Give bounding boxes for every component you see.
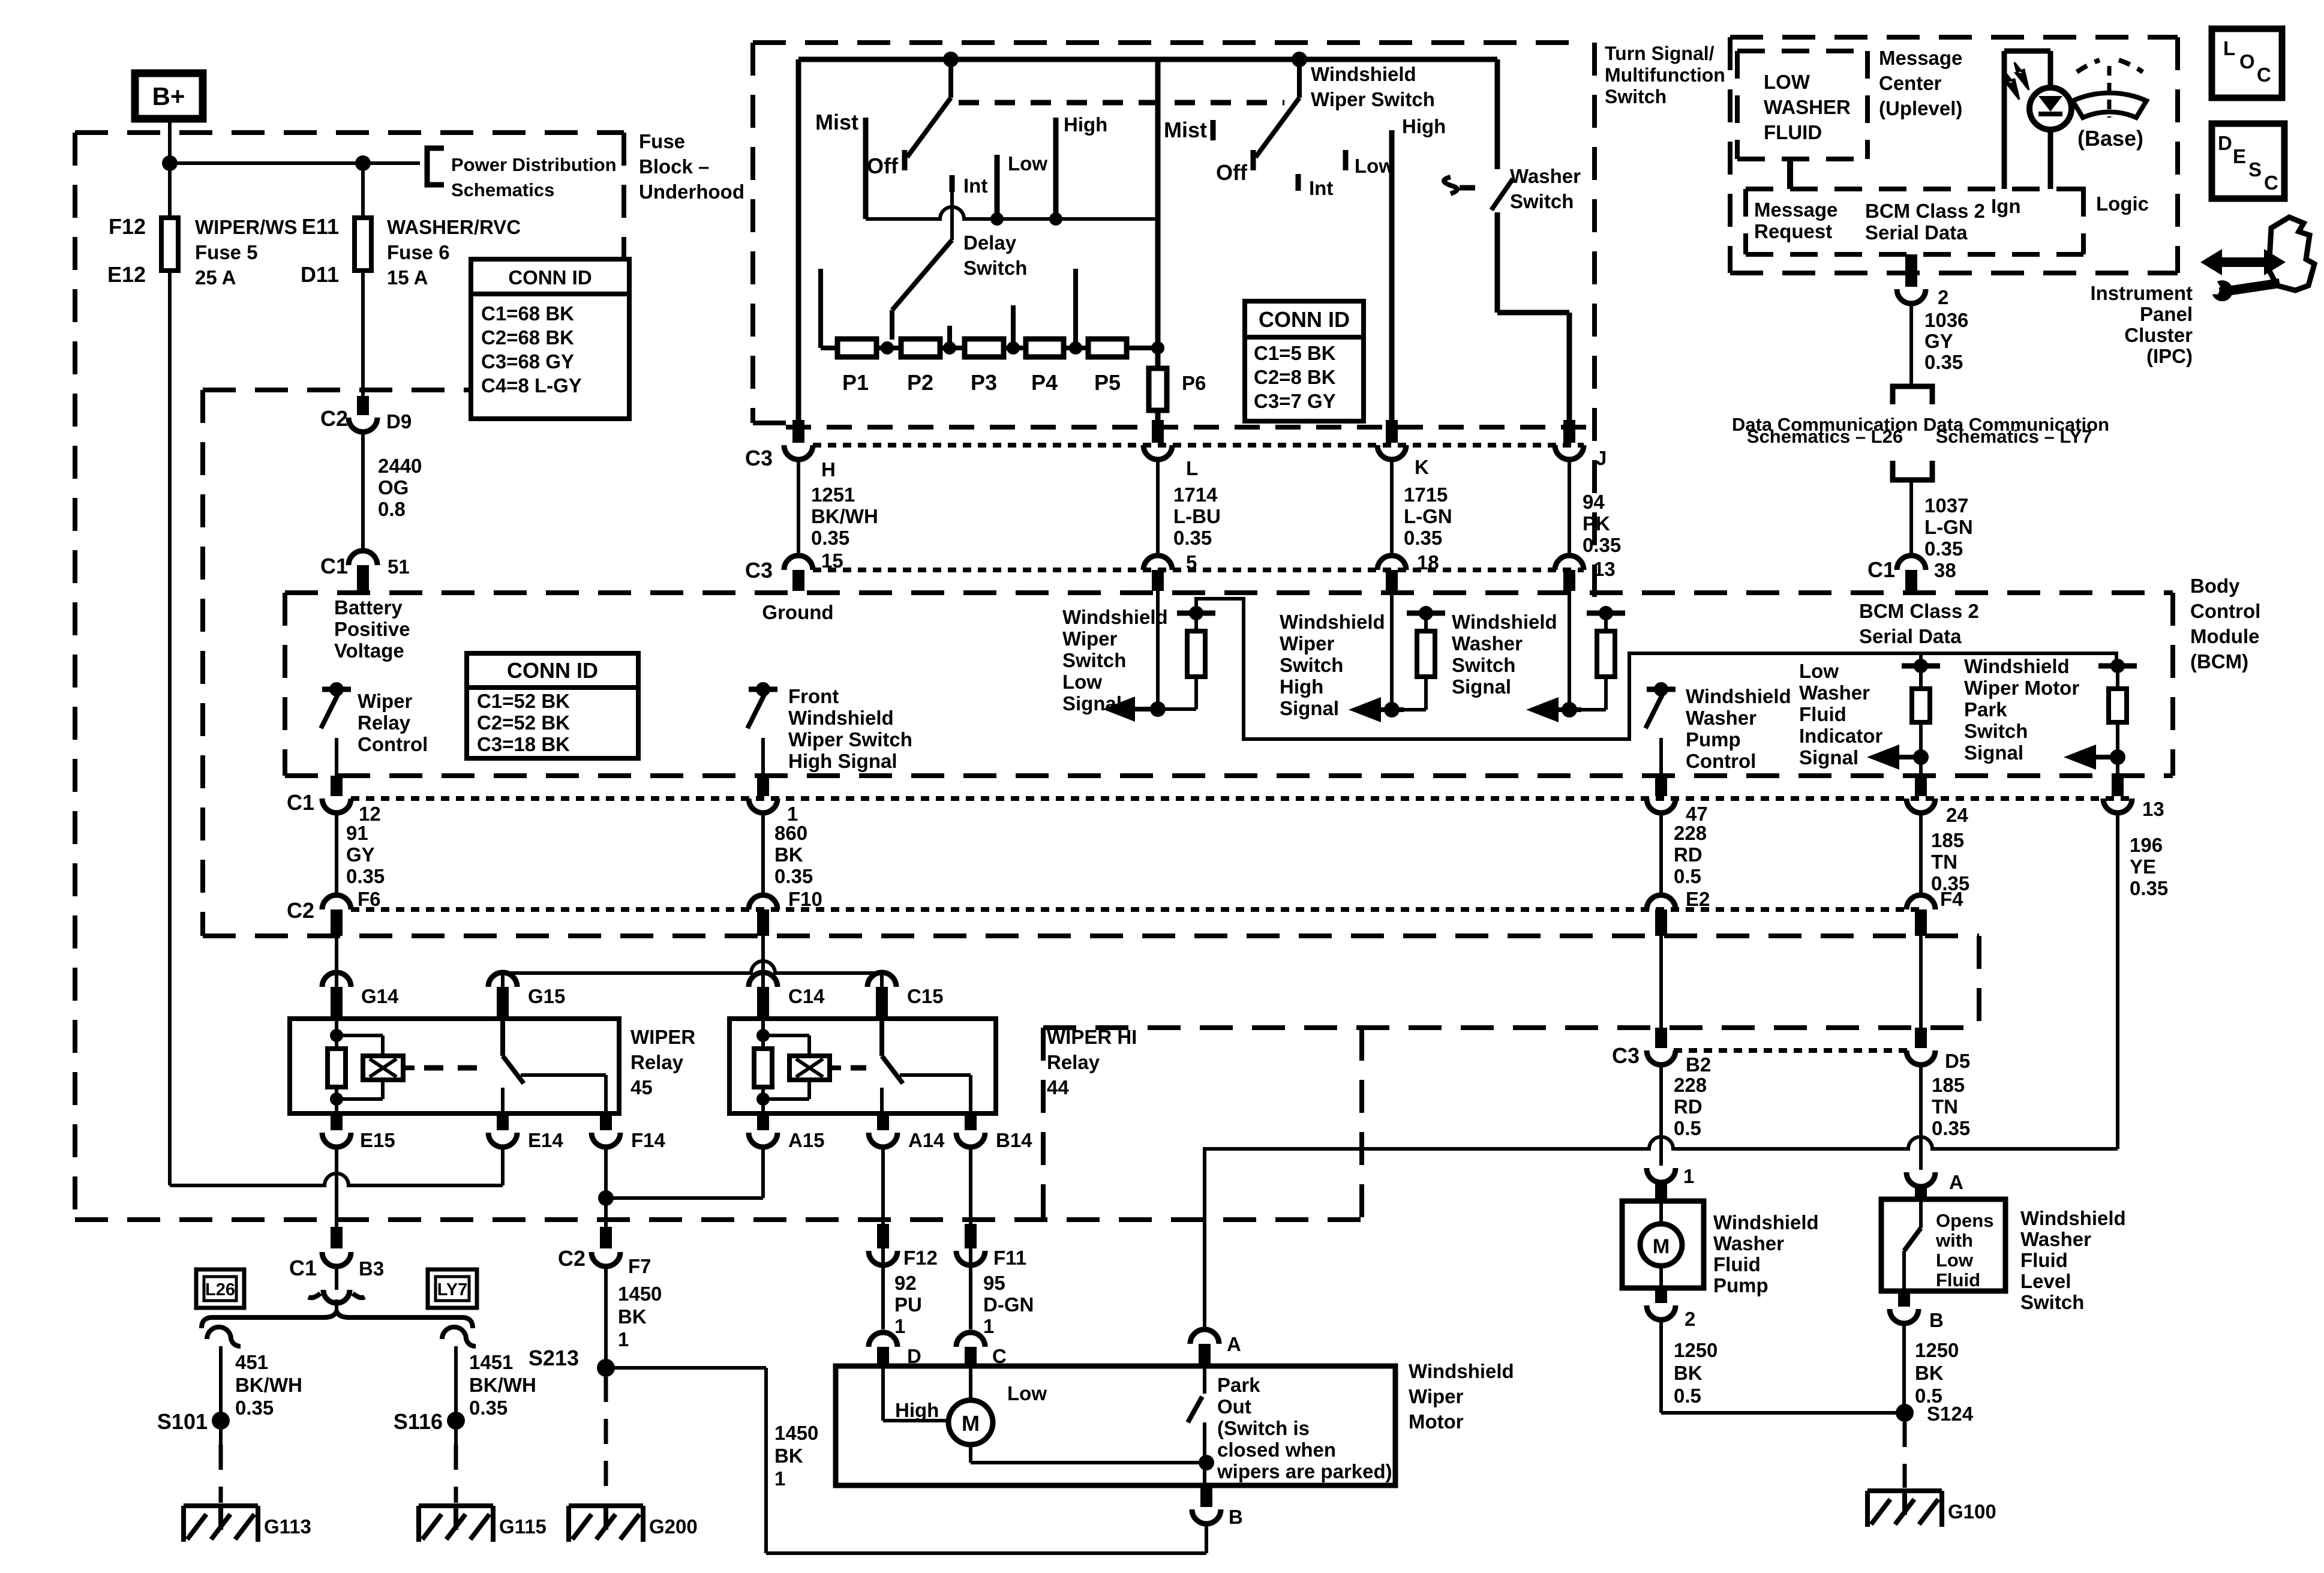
section1 Int contact [950, 175, 955, 192]
svg-text:S101: S101 [157, 1409, 208, 1434]
svg-text:BK/WH: BK/WH [235, 1374, 302, 1396]
svg-text:High: High [1402, 115, 1446, 137]
svg-text:GY: GY [1924, 330, 1953, 352]
svg-text:D5: D5 [1945, 1050, 1970, 1072]
connector hook L26 leg [207, 1327, 241, 1346]
svg-text:0.35: 0.35 [1583, 534, 1621, 556]
switch supply bus [798, 57, 1497, 62]
connector K lower (18) [1377, 556, 1406, 570]
connector G15 [488, 972, 517, 987]
svg-text:Switch: Switch [1964, 720, 2028, 742]
svg-text:C2: C2 [287, 898, 314, 923]
svg-text:Switch: Switch [1280, 654, 1343, 676]
wire G15-C15 link [503, 961, 882, 973]
svg-text:Motor: Motor [1409, 1410, 1464, 1433]
svg-text:Opens: Opens [1936, 1210, 1993, 1231]
svg-text:Washer: Washer [1713, 1232, 1784, 1254]
svg-text:C3: C3 [745, 446, 773, 470]
svg-text:1: 1 [1683, 1165, 1694, 1187]
arrow wiper switch high signal [1349, 697, 1381, 722]
svg-text:1451: 1451 [469, 1351, 513, 1373]
connector D5 [1915, 1028, 1927, 1048]
svg-text:BK: BK [618, 1305, 647, 1328]
wire F6 to G14 [335, 936, 338, 987]
connector 24 [1915, 776, 1927, 796]
svg-text:0.5: 0.5 [1674, 1117, 1701, 1139]
vehicle data-link icon [2269, 217, 2314, 290]
svg-text:1450: 1450 [618, 1283, 662, 1305]
svg-text:High: High [895, 1399, 939, 1421]
svg-text:Cluster: Cluster [2124, 324, 2193, 346]
svg-text:TN: TN [1931, 851, 1957, 873]
svg-text:Windshield: Windshield [1409, 1360, 1514, 1382]
svg-text:Relay: Relay [630, 1051, 684, 1073]
wire J input inside BCM [1568, 591, 1571, 710]
svg-text:Washer: Washer [2020, 1228, 2091, 1250]
svg-text:1: 1 [774, 1467, 785, 1490]
row B upper dotted line [351, 796, 2132, 801]
svg-text:A14: A14 [908, 1129, 945, 1151]
splice S101 [212, 1412, 230, 1430]
relay WIPER HI mech link [851, 1065, 866, 1071]
svg-text:Message: Message [1879, 47, 1962, 69]
svg-text:TN: TN [1932, 1095, 1958, 1118]
svg-text:Windshield: Windshield [1452, 611, 1557, 633]
L26 engine option box [196, 1269, 244, 1308]
relay WIPER solenoid [363, 1056, 403, 1080]
svg-text:0.35: 0.35 [235, 1397, 274, 1419]
svg-text:Pump: Pump [1713, 1274, 1768, 1296]
right bus leg to L [1155, 59, 1161, 368]
svg-text:F11: F11 [993, 1247, 1026, 1269]
ground G100 [1867, 1488, 1942, 1493]
svg-text:92: 92 [894, 1272, 917, 1294]
svg-text:0.35: 0.35 [774, 865, 813, 887]
delay switch wiper [892, 240, 952, 310]
svg-text:RD: RD [1674, 1095, 1703, 1118]
svg-text:F4: F4 [1940, 888, 1963, 910]
relay WIPER coil [335, 1019, 338, 1047]
svg-text:0.8: 0.8 [378, 498, 406, 520]
wire 860 BK 0.35 [761, 813, 765, 895]
svg-text:Switch: Switch [1452, 654, 1515, 676]
svg-text:1: 1 [983, 1315, 994, 1337]
svg-text:Wiper: Wiper [1409, 1385, 1464, 1407]
svg-text:Switch: Switch [1510, 190, 1574, 212]
svg-text:Signal: Signal [1062, 692, 1122, 715]
wire 228 RD 0.5 [1659, 813, 1663, 895]
svg-text:with: with [1935, 1230, 1973, 1251]
section2 Int contact [1296, 174, 1301, 191]
connector A (level switch) [1906, 1172, 1935, 1187]
connector C1/51 [349, 551, 377, 565]
svg-text:1250: 1250 [1915, 1339, 1959, 1361]
svg-text:38: 38 [1934, 559, 1956, 581]
svg-text:Low: Low [1062, 671, 1102, 693]
svg-text:Windshield: Windshield [2020, 1207, 2126, 1229]
row B lower dotted line [351, 907, 1921, 912]
connector C1/12 [331, 776, 343, 796]
svg-text:CONN ID: CONN ID [507, 658, 598, 683]
connector B (level switch) [1898, 1291, 1910, 1307]
svg-text:C1=52 BK: C1=52 BK [477, 690, 570, 712]
svg-text:C1: C1 [320, 554, 348, 578]
svg-text:0.5: 0.5 [1674, 1385, 1701, 1407]
connector A15 [757, 1113, 769, 1130]
svg-text:BK: BK [774, 1445, 803, 1467]
svg-text:BK/WH: BK/WH [811, 505, 878, 527]
svg-text:PU: PU [894, 1293, 922, 1316]
switch gang mechanical link [959, 100, 1284, 106]
relay WIPER switch [500, 1019, 505, 1056]
wire B+ to fuses [168, 119, 172, 218]
relay WIPER HI coil [761, 1019, 765, 1047]
svg-text:S124: S124 [1927, 1403, 1974, 1425]
wire 1250 BK 0.5 (level) [1902, 1323, 1906, 1413]
splice S213 [597, 1359, 615, 1377]
svg-text:Request: Request [1754, 220, 1832, 242]
svg-text:1250: 1250 [1674, 1339, 1718, 1361]
relay box WIPER [290, 1019, 619, 1113]
svg-text:OG: OG [378, 476, 409, 499]
svg-text:Washer: Washer [1799, 682, 1870, 704]
svg-text:Body: Body [2190, 575, 2240, 597]
svg-text:Wiper Motor: Wiper Motor [1964, 677, 2079, 699]
svg-text:closed when: closed when [1217, 1439, 1336, 1461]
svg-text:Battery: Battery [334, 596, 403, 619]
svg-text:94: 94 [1583, 491, 1605, 513]
svg-text:Fluid: Fluid [1713, 1253, 1761, 1275]
wire S213 to motor B [606, 1366, 766, 1370]
svg-text:45: 45 [630, 1076, 653, 1098]
svg-text:Center: Center [1879, 72, 1942, 94]
wire H leg (left bus) [796, 59, 801, 420]
arrow wiper switch low signal [1103, 697, 1135, 722]
svg-text:P5: P5 [1094, 370, 1121, 395]
svg-text:Ground: Ground [762, 601, 833, 623]
svg-text:C1: C1 [287, 790, 314, 815]
svg-text:Low: Low [1799, 660, 1839, 682]
connector C1/B3 [322, 1252, 351, 1266]
harness dashed boundary bottom [203, 933, 1979, 938]
svg-text:Low: Low [1936, 1250, 1974, 1271]
svg-text:L: L [2223, 37, 2235, 59]
svg-text:B2: B2 [1686, 1053, 1711, 1076]
wire LWF to message request [1787, 159, 1793, 189]
svg-text:Relay: Relay [1047, 1051, 1100, 1073]
svg-text:0.35: 0.35 [2130, 877, 2168, 899]
svg-text:Relay: Relay [358, 712, 411, 734]
wire B14 to C [969, 1147, 972, 1329]
svg-text:Ign: Ign [1991, 195, 2020, 217]
connector J lower (13) [1555, 556, 1584, 570]
wire 1715 L-GN 0.35 [1390, 460, 1394, 556]
svg-text:WIPER/WS: WIPER/WS [195, 216, 298, 238]
connector C1/38 to BCM [1897, 556, 1926, 570]
svg-text:PK: PK [1583, 512, 1610, 535]
svg-text:B+: B+ [152, 82, 185, 110]
connector row C3 lower dotted line [813, 568, 1584, 572]
wire 91 GY 0.35 [335, 813, 338, 895]
connector 2 (pump) [1655, 1288, 1667, 1303]
svg-text:196: 196 [2130, 834, 2163, 856]
svg-text:Instrument: Instrument [2090, 282, 2193, 304]
connector C2/F6 [322, 895, 351, 909]
svg-text:D: D [2218, 132, 2232, 154]
svg-text:B: B [1929, 1309, 1944, 1331]
svg-text:C1=5 BK: C1=5 BK [1254, 342, 1336, 364]
svg-text:C3: C3 [1612, 1043, 1640, 1068]
svg-text:BK/WH: BK/WH [469, 1374, 536, 1396]
svg-text:Wiper Switch: Wiper Switch [788, 728, 912, 751]
svg-text:CONN ID: CONN ID [508, 266, 591, 289]
connector 13 [2112, 776, 2124, 796]
wire 1450 BK 1 (upper) [604, 1266, 608, 1361]
svg-text:Schematics – LY7: Schematics – LY7 [1936, 426, 2092, 447]
svg-text:High: High [1064, 113, 1107, 136]
ladder taps [881, 341, 894, 355]
instrument panel cluster dashed box [1730, 35, 2178, 40]
svg-text:Windshield: Windshield [788, 707, 894, 729]
svg-text:Out: Out [1217, 1395, 1251, 1418]
svg-text:Low: Low [1008, 152, 1047, 175]
wiper switch section 2 blade [1292, 52, 1307, 67]
svg-text:RD: RD [1674, 843, 1703, 866]
svg-text:P4: P4 [1031, 370, 1058, 395]
svg-text:1450: 1450 [774, 1422, 818, 1444]
resistor P4 [1026, 339, 1064, 357]
svg-text:Power Distribution: Power Distribution [451, 154, 617, 175]
relay WIPER mech link [424, 1065, 487, 1071]
svg-text:Control: Control [358, 733, 428, 755]
wire 1036 GY 0.35 [1909, 304, 1913, 386]
svg-text:Fuse 6: Fuse 6 [387, 241, 450, 263]
wire B2 to pump [1659, 1137, 1663, 1166]
svg-text:E15: E15 [360, 1129, 395, 1151]
svg-text:BCM Class 2: BCM Class 2 [1865, 200, 1985, 222]
svg-text:Signal: Signal [1799, 746, 1858, 769]
svg-text:K: K [1415, 456, 1429, 478]
fuse F12 WIPER/WS Fuse 5 25A [161, 218, 178, 271]
svg-text:L: L [1186, 457, 1198, 479]
connector 1 (BCM) [757, 776, 769, 796]
svg-text:C14: C14 [788, 985, 825, 1007]
svg-text:Front: Front [788, 685, 839, 707]
washer fluid level switch box [1881, 1199, 2005, 1291]
svg-text:Off: Off [867, 154, 899, 178]
wire E2 to B2 [1659, 936, 1663, 1047]
svg-text:(BCM): (BCM) [2190, 650, 2248, 673]
wiper washer icon (Base) [2073, 93, 2146, 118]
svg-text:Wiper: Wiper [1280, 632, 1335, 655]
svg-text:Windshield: Windshield [1062, 606, 1168, 628]
arrow low washer fluid indicator signal [1867, 745, 1899, 770]
wire fuse6 to connector D9 [361, 271, 365, 396]
body control module dashed box [285, 590, 2173, 595]
svg-text:Windshield: Windshield [1686, 685, 1791, 707]
svg-text:(IPC): (IPC) [2146, 345, 2193, 367]
svg-text:F14: F14 [631, 1129, 666, 1151]
section1 Low contact [995, 155, 1000, 219]
svg-text:M: M [962, 1411, 980, 1436]
row C dotted line [1674, 1048, 1908, 1053]
wire S213 to G200 (dashed) [604, 1377, 608, 1503]
svg-text:C2: C2 [320, 406, 348, 431]
ground G200 [569, 1503, 643, 1508]
connector E2 lower [1647, 895, 1676, 909]
LED emission arrows [2014, 62, 2029, 90]
svg-text:LOW: LOW [1764, 71, 1810, 93]
svg-text:13: 13 [2142, 798, 2164, 820]
svg-text:Voltage: Voltage [334, 640, 404, 662]
svg-text:91: 91 [346, 822, 368, 844]
svg-text:Message: Message [1754, 199, 1837, 221]
svg-text:C3=7 GY: C3=7 GY [1254, 390, 1336, 412]
svg-text:2: 2 [1938, 286, 1948, 308]
svg-text:0.35: 0.35 [469, 1397, 508, 1419]
pullup resistor (low washer fluid indicator) [1902, 664, 1940, 669]
wire 94 PK 0.35 [1568, 460, 1571, 556]
svg-text:F10: F10 [788, 888, 822, 910]
connector IPC 2 [1897, 289, 1926, 304]
svg-text:High: High [1280, 676, 1323, 698]
wire 1451 BK/WH 0.35 [454, 1346, 458, 1421]
connector C14 [749, 972, 777, 987]
svg-text:0.35: 0.35 [811, 527, 849, 549]
svg-text:S116: S116 [394, 1409, 443, 1434]
svg-text:1251: 1251 [811, 484, 855, 506]
connector F14 [600, 1113, 612, 1130]
connector C15 [867, 972, 896, 987]
svg-text:Washer: Washer [1686, 707, 1756, 729]
connector B14 [965, 1113, 977, 1130]
svg-text:Mist: Mist [1164, 118, 1207, 142]
svg-text:A15: A15 [788, 1129, 825, 1151]
svg-text:Switch: Switch [2020, 1291, 2084, 1313]
svg-text:Logic: Logic [2096, 193, 2149, 215]
wire A14 to D [881, 1147, 885, 1329]
svg-text:185: 185 [1932, 1074, 1965, 1096]
svg-text:WIPER HI: WIPER HI [1047, 1026, 1137, 1048]
svg-text:G115: G115 [499, 1515, 547, 1538]
LED circle and diode [2029, 88, 2071, 130]
svg-text:0.35: 0.35 [346, 865, 385, 887]
svg-text:51: 51 [388, 556, 410, 578]
svg-text:F6: F6 [358, 888, 381, 910]
svg-text:P3: P3 [971, 370, 997, 395]
svg-text:Serial Data: Serial Data [1865, 221, 1968, 244]
svg-text:BK: BK [1915, 1362, 1944, 1384]
svg-text:G14: G14 [361, 985, 399, 1007]
svg-text:2440: 2440 [378, 455, 422, 477]
connector C [956, 1332, 985, 1347]
park switch [1203, 1368, 1206, 1394]
svg-text:BK: BK [774, 843, 803, 866]
connector H lower (15) [784, 556, 813, 570]
svg-text:1: 1 [894, 1315, 905, 1337]
svg-text:25 A: 25 A [195, 266, 236, 289]
svg-text:Int: Int [963, 175, 987, 197]
LOW WASHER FLUID dashed box [1737, 49, 1867, 53]
section1 common rail with hop at Int [866, 207, 1158, 219]
B+ feed wire to E14 with hop over E15 wire [170, 1173, 503, 1185]
svg-text:451: 451 [235, 1351, 268, 1373]
svg-text:1037: 1037 [1924, 494, 1968, 517]
svg-text:F12: F12 [109, 214, 146, 239]
splice of data references [1893, 386, 1932, 404]
svg-text:A: A [1949, 1171, 1963, 1193]
svg-text:Fluid: Fluid [2020, 1249, 2068, 1271]
svg-text:C: C [2264, 172, 2278, 194]
ground G113 [184, 1503, 258, 1508]
svg-text:228: 228 [1674, 1074, 1707, 1096]
svg-text:Wiper: Wiper [358, 690, 413, 712]
svg-text:B3: B3 [359, 1257, 384, 1280]
svg-text:0.35: 0.35 [1924, 351, 1963, 373]
CONN ID table (wiper switch) [1245, 301, 1364, 421]
wiper relay control switch [322, 687, 351, 692]
svg-text:0.35: 0.35 [1924, 538, 1963, 560]
svg-text:0.35: 0.35 [1173, 527, 1212, 549]
message request dashed box [1746, 187, 2083, 191]
splice S116 [447, 1412, 465, 1430]
pullup resistor (wiper switch high signal) [1407, 611, 1445, 616]
svg-text:L26: L26 [205, 1280, 235, 1299]
svg-text:E: E [2233, 145, 2246, 167]
svg-text:Park: Park [1964, 698, 2007, 721]
resistor P2 [901, 339, 940, 357]
windshield wiper motor box [836, 1366, 1395, 1485]
svg-text:O: O [2239, 50, 2255, 73]
level switch blade [1919, 1199, 1923, 1228]
svg-text:C2: C2 [558, 1246, 585, 1271]
B+ battery positive node [135, 73, 203, 119]
connector F4 lower [1906, 895, 1935, 909]
connector L upper [1152, 420, 1164, 443]
svg-text:Schematics: Schematics [451, 179, 554, 200]
svg-text:228: 228 [1674, 822, 1707, 844]
connector A14 [877, 1113, 889, 1130]
washer pump control switch [1647, 687, 1676, 692]
connector C3/B2 [1655, 1028, 1667, 1048]
svg-text:Indicator: Indicator [1799, 725, 1883, 747]
connector E15 [331, 1113, 343, 1130]
svg-text:GY: GY [346, 843, 375, 866]
svg-text:Signal: Signal [1280, 697, 1339, 719]
wire 2440 OG 0.8 [361, 432, 365, 551]
LOC box [2212, 29, 2282, 98]
svg-text:Multifunction: Multifunction [1605, 64, 1725, 86]
svg-text:44: 44 [1047, 1076, 1069, 1098]
wire 1251 BK/WH 0.35 [797, 460, 800, 556]
svg-text:15 A: 15 A [387, 266, 428, 289]
connector F11 inline [965, 1224, 977, 1248]
svg-text:P1: P1 [842, 370, 869, 395]
connector A (motor) [1190, 1329, 1219, 1344]
svg-text:860: 860 [774, 822, 807, 844]
svg-text:G15: G15 [528, 985, 565, 1007]
svg-text:C3=68 GY: C3=68 GY [481, 350, 574, 373]
svg-text:S: S [2248, 158, 2262, 181]
svg-text:95: 95 [983, 1272, 1005, 1294]
svg-text:Signal: Signal [1452, 676, 1511, 698]
svg-text:Fluid: Fluid [1799, 703, 1846, 725]
svg-text:Module: Module [2190, 625, 2259, 647]
washer fluid pump box [1622, 1201, 1704, 1288]
relay box WIPER HI [729, 1019, 996, 1113]
logic corner and label [2067, 189, 2083, 206]
connector G14 [322, 972, 351, 987]
